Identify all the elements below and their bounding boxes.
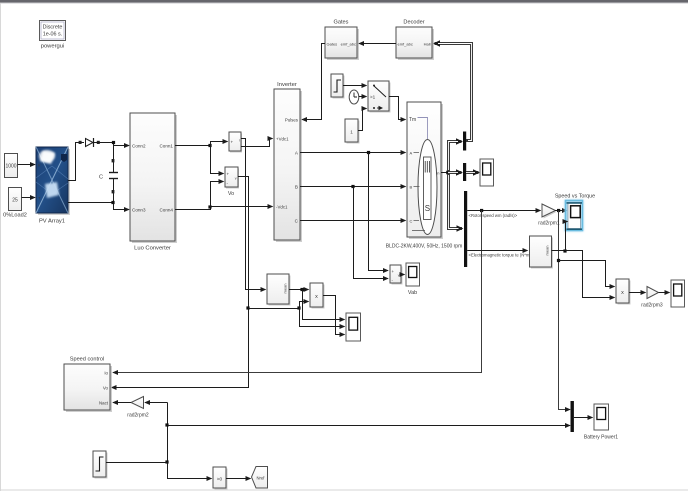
svg-text:mean: mean — [545, 245, 550, 255]
node ref mux — [165, 423, 168, 426]
wire torque mean to product2 in1 — [566, 251, 615, 298]
constant block 1000 — [5, 154, 18, 178]
Decoder subsystem — [396, 20, 434, 61]
bus node M to selector2 — [448, 171, 462, 174]
wire phase B tap down to VM- — [354, 187, 389, 279]
wire mux to Battery scope — [574, 417, 593, 419]
switch block — [368, 81, 391, 113]
Speed control subsystem — [64, 357, 112, 413]
svg-text:1000: 1000 — [5, 164, 16, 170]
wire phase A tap down to VM+ — [369, 153, 389, 271]
node cap bottom — [111, 201, 114, 204]
svg-text:emf_abc: emf_abc — [341, 42, 356, 47]
wire speed rpm down to mux battery — [559, 211, 571, 410]
svg-text:B: B — [295, 185, 298, 190]
voltage measurement Vab — [390, 265, 403, 285]
svg-text:mean: mean — [283, 283, 288, 293]
clock block — [349, 90, 359, 104]
powergui block — [40, 21, 66, 50]
svg-text:powergui: powergui — [41, 44, 65, 50]
gain rad2rpm3 — [641, 287, 663, 309]
wire phase A inverter to motor — [300, 152, 406, 154]
svg-text:-Vdc1: -Vdc1 — [276, 205, 288, 210]
node P1 — [297, 306, 300, 309]
svg-text:<Rotor speed wm (rad/s)>: <Rotor speed wm (rad/s)> — [469, 213, 518, 218]
wire PV- to Conn3 — [68, 203, 129, 210]
svg-text:Luo Converter: Luo Converter — [134, 246, 171, 252]
node cap top — [112, 141, 115, 144]
wire constant25 to PV T — [22, 197, 36, 199]
left window edge — [0, 3, 1, 491]
node phase B tap — [351, 185, 354, 188]
gain rad2rpm2 left-pointing — [127, 397, 149, 419]
wire speed feedback down to Io — [113, 211, 482, 373]
wire rad2rpm3 to scope4 — [659, 292, 670, 294]
wire node B1 up to Vo- — [211, 182, 224, 208]
svg-text:Speed control: Speed control — [70, 357, 105, 363]
mean block mean2 — [267, 274, 291, 306]
Gates subsystem — [325, 20, 359, 61]
wire phase C inverter to motor — [300, 220, 406, 222]
wire product1 out to scope3 in3 — [323, 296, 345, 335]
wire mean1 out — [552, 250, 566, 252]
svg-text:Nact: Nact — [99, 401, 109, 406]
wire vertical net to rad2rpm2 — [145, 402, 168, 404]
wire mean2 branch down to scope3 in1 — [303, 290, 345, 320]
svg-text:x: x — [621, 290, 624, 296]
svg-text:25: 25 — [12, 198, 18, 204]
svg-text:Vo: Vo — [228, 191, 234, 197]
bus selector2 out to scope1 — [466, 171, 479, 174]
node B1 — [208, 205, 211, 208]
scope3 — [346, 313, 361, 341]
gain rad2rpm1 — [538, 204, 560, 227]
wire rad2rpm2 to Nact — [113, 402, 131, 404]
svg-text:x: x — [315, 294, 318, 300]
svg-text:>0: >0 — [217, 477, 223, 483]
svg-text:PV Array1: PV Array1 — [39, 219, 65, 225]
svg-text:Conn2: Conn2 — [132, 144, 146, 149]
bus selector 2 — [463, 163, 466, 181]
product block product1 — [310, 283, 325, 309]
svg-text:v: v — [235, 177, 237, 181]
capacitor C — [99, 144, 118, 201]
wire Conn1 to node A1 — [175, 145, 210, 147]
bus node M down to selector3 — [449, 174, 463, 229]
wire clock to switch in2 — [359, 96, 367, 98]
step block Step2 — [93, 451, 108, 479]
Nref goto tag — [252, 467, 268, 489]
wire diode to Conn2 — [94, 143, 130, 146]
node M — [446, 171, 450, 175]
svg-text:Gates: Gates — [327, 42, 338, 47]
wire torque out to mean1 — [467, 250, 527, 252]
svg-text:0%Load2: 0%Load2 — [3, 213, 27, 219]
svg-text:Discrete: Discrete — [43, 25, 63, 31]
svg-text:+: + — [227, 172, 230, 177]
svg-text:C: C — [99, 175, 103, 181]
wire constant to switch in3 — [358, 109, 367, 131]
wire motor m out to node M — [441, 172, 448, 174]
scope Battery Power1 — [584, 404, 618, 441]
svg-text:<Electromagnetic torque te (N*: <Electromagnetic torque te (N*m)> — [469, 253, 534, 258]
svg-text:A: A — [410, 151, 413, 156]
PV Array1 — [36, 147, 70, 225]
svg-text:Gates: Gates — [334, 20, 349, 26]
mux battery — [571, 401, 574, 432]
svg-text:Conn3: Conn3 — [132, 208, 146, 213]
wire i1 measurement out down to mean2 — [241, 139, 266, 290]
svg-text:Io: Io — [104, 371, 108, 376]
svg-text:rad2rpm2: rad2rpm2 — [127, 413, 149, 419]
svg-text:+: + — [231, 140, 234, 145]
wire torque mean up to scope ST in2 — [566, 222, 568, 251]
wire node A1 up into current sensor — [211, 142, 228, 146]
node torque mean — [563, 249, 566, 252]
constant block 25 — [3, 188, 27, 219]
wire constant1000 to PV Ir — [18, 164, 36, 166]
wire i1 circuit out to +Vdc1 — [241, 139, 273, 147]
BLDC motor block — [386, 102, 463, 250]
wire node P1 down to scope3 in2 — [300, 309, 345, 327]
node speed to product — [557, 259, 560, 262]
wire PV+ up to diode rail — [68, 143, 84, 181]
svg-text:Vo: Vo — [103, 386, 109, 391]
svg-text:S: S — [425, 204, 430, 213]
product block product2 — [616, 279, 631, 305]
bottom window edge — [0, 490, 688, 491]
bus node M up to selector1 — [449, 142, 462, 172]
svg-text:v: v — [398, 274, 400, 278]
svg-text:C: C — [410, 219, 413, 224]
diode D — [79, 138, 100, 147]
wire Vo branch to product1 and scope3 — [249, 308, 300, 310]
node speed feedback — [480, 209, 483, 212]
current measurement block i1 — [229, 132, 242, 153]
wire node A1 down to Vo+ — [211, 146, 224, 174]
wire product2 to rad2rpm3 — [629, 292, 646, 294]
wire ref to battery mux in2 — [168, 425, 571, 427]
constant block Tm value — [345, 119, 360, 144]
node speed rpm — [557, 209, 560, 212]
svg-text:rad2rpm1: rad2rpm1 — [538, 221, 560, 227]
wire Vab VM to scope2 — [401, 274, 405, 276]
node phase A tap — [367, 151, 370, 154]
wire Decoder emf_abc to Gates emf_abc — [359, 43, 396, 45]
top window border — [0, 0, 688, 3]
wire mean2 out to product1 — [289, 289, 309, 291]
wire switch out to Tm — [389, 97, 406, 120]
svg-text:Conn1: Conn1 — [159, 144, 173, 149]
wire phase B inverter to motor — [300, 186, 406, 188]
svg-text:+Vdc1: +Vdc1 — [276, 137, 289, 142]
scope4 — [671, 280, 685, 307]
wire >0 to Nref tag — [226, 478, 251, 480]
bus selector 3 — [464, 191, 467, 267]
wire Conn4 bottom rail to -Vdc1 — [175, 207, 273, 210]
svg-text:1: 1 — [350, 130, 353, 135]
wire node P1 up to product1 in2 — [300, 302, 309, 309]
scope1 — [480, 159, 494, 186]
step block Step1 — [331, 74, 345, 99]
node ref step — [165, 460, 168, 463]
svg-text:B: B — [410, 185, 413, 190]
scope2 Vab — [406, 263, 420, 296]
node A1 — [208, 144, 211, 147]
mean block mean1 — [530, 236, 554, 269]
wire Gates out down to Pulses — [302, 44, 325, 120]
svg-text:Decoder: Decoder — [403, 20, 424, 26]
node Vo branch — [246, 306, 249, 309]
svg-text:Tm: Tm — [409, 117, 416, 123]
svg-text:emf_abc: emf_abc — [398, 42, 413, 47]
wire Step2 to ref vertical — [106, 462, 168, 464]
wire reference vertical — [168, 403, 212, 479]
wire rad2rpm1 to scope ST in1 — [555, 210, 567, 212]
svg-text:Pulses: Pulses — [285, 118, 299, 123]
wire speed branch to product2 in2 — [559, 261, 615, 287]
wire Step1 to switch in1 — [343, 85, 367, 87]
bus selector1 out to Decoder Hall — [435, 44, 472, 141]
scope Speed vs Torque selected — [555, 194, 595, 232]
svg-text:Speed vs Torque: Speed vs Torque — [555, 194, 595, 200]
svg-text:Conn4: Conn4 — [159, 208, 173, 213]
svg-text:Hall: Hall — [424, 42, 431, 47]
Inverter subsystem — [274, 82, 302, 242]
svg-text:1e-06 s.: 1e-06 s. — [43, 32, 62, 38]
voltage measurement block Vo — [225, 167, 239, 197]
svg-text:Nref: Nref — [257, 476, 266, 481]
wire rotor speed out — [467, 210, 540, 212]
bus selector 1 — [463, 132, 466, 151]
wire Vo out down long — [112, 177, 249, 388]
svg-text:>1: >1 — [370, 95, 376, 100]
svg-text:Vab: Vab — [408, 290, 417, 296]
svg-text:BLDC-2KW,400V, 50Hz, 1500 rpm: BLDC-2KW,400V, 50Hz, 1500 rpm — [386, 244, 463, 250]
svg-text:Inverter: Inverter — [277, 82, 297, 88]
svg-text:Battery Power1: Battery Power1 — [584, 435, 618, 441]
node mean2 out — [300, 288, 303, 291]
compare block >0 — [213, 467, 228, 490]
Luo Converter subsystem — [130, 113, 177, 252]
svg-text:rad2rpm3: rad2rpm3 — [641, 303, 663, 309]
